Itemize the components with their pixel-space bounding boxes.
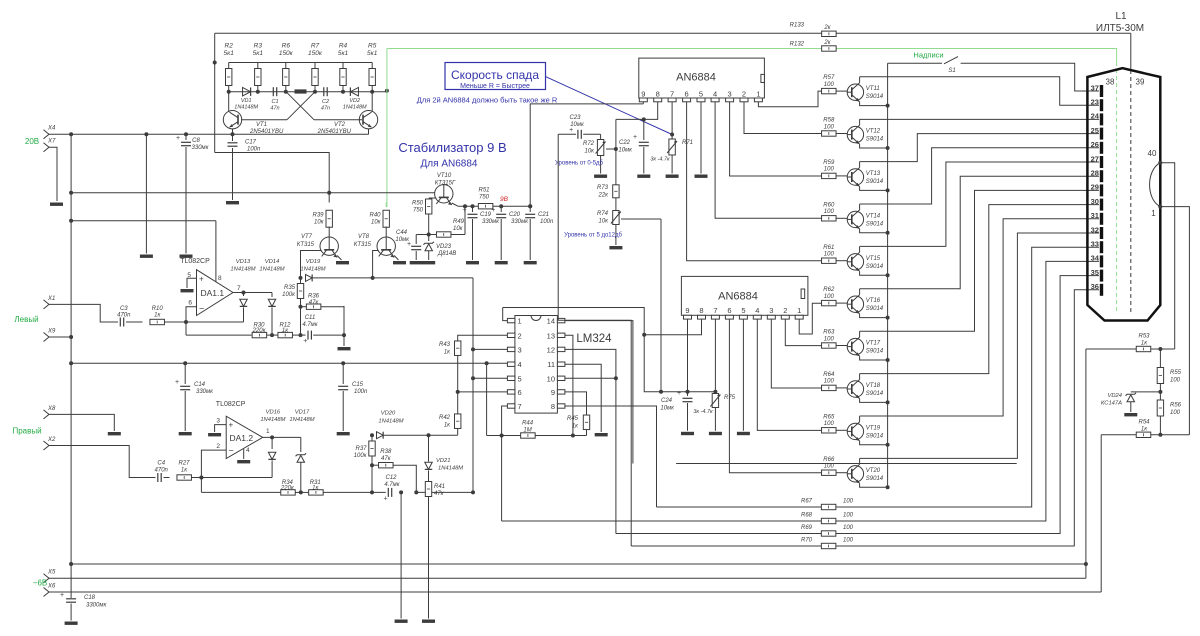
diode VD16 xyxy=(268,452,276,459)
svg-text:330мк: 330мк xyxy=(196,389,214,395)
wire C23 to R72 xyxy=(583,133,600,135)
resistor R55 xyxy=(1157,368,1163,384)
ground C17 xyxy=(226,201,239,204)
display pin 24 mark xyxy=(1100,113,1103,125)
svg-text:X9: X9 xyxy=(47,329,56,335)
wire chip2 pin8 hook xyxy=(644,319,701,335)
svg-text:23: 23 xyxy=(1091,98,1099,107)
transistor VT19 xyxy=(847,422,863,441)
ground AN6884-2 pin5 xyxy=(737,432,750,435)
junction xyxy=(69,335,73,339)
wire R42 bottom xyxy=(457,429,459,436)
svg-text:3к -4.7к: 3к -4.7к xyxy=(693,409,713,415)
wire X6 rail riser xyxy=(1100,435,1102,592)
wire R44 right xyxy=(535,435,586,437)
wire multivibrator top rail xyxy=(229,62,373,64)
wire multivibrator lower rail xyxy=(229,91,387,93)
junction xyxy=(642,333,646,337)
AN6884-1 pin 1 stub xyxy=(754,98,762,102)
svg-text:Уровень от 5 до12дб: Уровень от 5 до12дб xyxy=(564,233,622,239)
svg-text:470n: 470n xyxy=(155,468,169,474)
svg-text:100: 100 xyxy=(824,336,835,342)
svg-text:Меньше R = Быстрее: Меньше R = Быстрее xyxy=(460,83,530,90)
junction xyxy=(144,132,148,136)
wire R69 to pin35 xyxy=(836,276,1099,534)
wire VT14 emitter xyxy=(860,229,888,233)
svg-text:R61: R61 xyxy=(823,245,834,251)
wire multivibrator left drop xyxy=(214,33,216,152)
switch S1 xyxy=(944,57,958,64)
svg-text:R50: R50 xyxy=(412,201,424,207)
svg-text:9: 9 xyxy=(685,306,689,315)
wire R4 top lead xyxy=(342,63,344,69)
trimmer resistor R72 xyxy=(596,140,606,156)
svg-text:L1: L1 xyxy=(1115,11,1127,22)
wire R5 top lead xyxy=(371,63,373,69)
wire VD16 bottom xyxy=(271,461,273,478)
wire R69 riser xyxy=(615,378,617,533)
wire input line to VD13 xyxy=(165,321,244,323)
svg-text:28: 28 xyxy=(1091,169,1099,178)
wire to LM324 pin5 drop xyxy=(416,491,473,493)
svg-text:10к: 10к xyxy=(371,220,382,226)
wire C22 top xyxy=(643,119,645,140)
svg-text:Надписи: Надписи xyxy=(913,51,943,60)
svg-text:C19: C19 xyxy=(480,212,492,218)
ground C15 xyxy=(337,432,350,435)
svg-text:R6: R6 xyxy=(282,43,291,50)
svg-text:VT10: VT10 xyxy=(437,173,452,179)
connector X4 xyxy=(44,130,50,139)
wire R67 to pin33 xyxy=(836,247,1099,507)
wire pin4 to R60 xyxy=(715,102,822,219)
wire feedback to R30 xyxy=(186,334,252,336)
svg-text:4: 4 xyxy=(518,360,522,369)
wire cross couple 2 xyxy=(287,92,315,120)
svg-text:C18: C18 xyxy=(84,595,96,601)
svg-text:3к -4.7к: 3к -4.7к xyxy=(650,157,670,163)
wire VT15 collector to pin27 xyxy=(860,162,1099,246)
svg-text:100n: 100n xyxy=(247,147,261,153)
svg-text:C8: C8 xyxy=(192,138,200,144)
svg-text:1: 1 xyxy=(797,306,801,315)
svg-text:30: 30 xyxy=(1091,197,1099,206)
svg-text:R68: R68 xyxy=(801,513,813,519)
wire R59 to VT13 base xyxy=(836,175,847,177)
ground branch xyxy=(140,255,153,258)
resistor R44 xyxy=(521,433,536,438)
svg-text:100: 100 xyxy=(824,252,835,258)
resistor R56 xyxy=(1157,400,1163,416)
wire chip2 pin4 to R65 xyxy=(757,319,822,430)
junction xyxy=(213,61,217,65)
svg-text:36: 36 xyxy=(1091,282,1099,291)
display pin 28 mark xyxy=(1100,170,1103,182)
capacitor C15 xyxy=(338,386,348,389)
resistor R65 xyxy=(822,428,837,433)
junction xyxy=(886,443,890,447)
diode VD20 xyxy=(377,432,384,439)
svg-text:C12: C12 xyxy=(385,475,397,481)
svg-text:X2: X2 xyxy=(47,437,56,443)
wire R12 to C11 xyxy=(293,334,306,336)
resistor R54 xyxy=(1136,432,1151,437)
ground R74 xyxy=(609,246,622,249)
junction xyxy=(528,204,532,208)
ground C11 node xyxy=(338,347,351,350)
wire R3 top lead xyxy=(257,63,259,69)
transistor VT20 xyxy=(847,464,863,483)
svg-text:R132: R132 xyxy=(790,42,805,48)
wire pin40 down xyxy=(1160,163,1174,349)
ground VD24 xyxy=(1124,413,1137,416)
LM324 pin 1 stub xyxy=(507,318,515,322)
ground VT7 emitter xyxy=(336,261,349,264)
transistor VT16 xyxy=(847,295,863,314)
wire R2 bottom lead xyxy=(228,86,230,92)
wire R55 to R56 xyxy=(1159,384,1161,401)
wire R56 bottom xyxy=(1159,416,1161,435)
wire C17 top xyxy=(232,134,234,141)
display L1 outline xyxy=(1087,68,1160,320)
zener diode VD17 xyxy=(296,453,307,462)
wire C14 bottom xyxy=(184,391,186,431)
svg-text:4: 4 xyxy=(713,89,717,98)
svg-text:Стабилизатор 9 В: Стабилизатор 9 В xyxy=(398,140,506,155)
wire C17 to ground xyxy=(232,148,234,200)
wire VT20 emitter xyxy=(860,483,888,487)
svg-text:+: + xyxy=(633,134,637,141)
junction xyxy=(184,132,188,136)
display pin 27 mark xyxy=(1100,156,1103,168)
LM324 pin 9 stub xyxy=(557,390,565,394)
svg-text:S9014: S9014 xyxy=(866,433,884,439)
svg-text:2: 2 xyxy=(742,89,746,98)
svg-text:+: + xyxy=(491,207,495,214)
svg-text:32: 32 xyxy=(1091,225,1099,234)
svg-text:R73: R73 xyxy=(597,185,609,191)
resistor R63 xyxy=(822,343,837,348)
wire to R38 xyxy=(372,464,379,466)
svg-text:330мк: 330мк xyxy=(482,219,500,225)
AN6884-1 pin 2 stub xyxy=(740,98,748,102)
svg-text:S9014: S9014 xyxy=(866,264,884,270)
wire VT13 emitter xyxy=(860,187,888,191)
svg-text:R70: R70 xyxy=(801,538,813,544)
svg-text:220к: 220к xyxy=(280,485,295,491)
svg-text:R27: R27 xyxy=(178,461,190,467)
svg-text:31: 31 xyxy=(1091,211,1099,220)
svg-text:100: 100 xyxy=(824,167,835,173)
svg-text:R43: R43 xyxy=(439,342,451,348)
junction xyxy=(69,191,73,195)
wire R6 top lead xyxy=(285,63,287,69)
wire pin4 ground xyxy=(243,449,245,459)
svg-text:22к: 22к xyxy=(597,193,609,199)
wire to VT1 base xyxy=(241,119,287,121)
wire VT11 collector xyxy=(859,77,861,83)
svg-text:100к: 100к xyxy=(354,453,368,459)
wire LM324 pin12 xyxy=(565,349,616,378)
common bar marker xyxy=(295,89,307,93)
ground R41 xyxy=(422,620,435,623)
svg-text:VT8: VT8 xyxy=(358,234,370,240)
wire VT17 collector xyxy=(859,331,861,337)
svg-text:R133: R133 xyxy=(790,23,805,29)
svg-text:R41: R41 xyxy=(434,484,445,490)
wire pin1 to chip2 node xyxy=(503,308,716,392)
AN6884-2 pin 9 stub xyxy=(684,315,692,319)
wire reference node xyxy=(416,234,465,236)
svg-text:10к: 10к xyxy=(598,219,609,225)
resistor R27 xyxy=(177,475,192,480)
wire pin14 line right xyxy=(676,463,1017,465)
wire VD14 top xyxy=(271,293,273,298)
svg-text:−: − xyxy=(229,446,234,456)
junction xyxy=(227,90,231,94)
junction xyxy=(499,204,503,208)
wire DA1.1 pin8 supply xyxy=(215,221,217,282)
resistor R69 xyxy=(821,531,836,536)
junction xyxy=(463,204,467,208)
svg-text:6: 6 xyxy=(518,388,522,397)
svg-text:1: 1 xyxy=(266,428,270,435)
junction xyxy=(642,117,646,121)
svg-text:7: 7 xyxy=(237,285,241,292)
wire pin1 down xyxy=(1160,207,1189,435)
junction xyxy=(886,231,890,235)
display pin 33 mark xyxy=(1100,241,1103,253)
resistor R7 xyxy=(312,69,318,86)
junction xyxy=(1158,347,1162,351)
svg-text:1N4148М: 1N4148М xyxy=(300,267,325,273)
wire R75 bottom xyxy=(714,408,716,431)
svg-text:100: 100 xyxy=(843,538,854,544)
wire VT18 emitter xyxy=(860,399,888,403)
wire R57 to VT11 base xyxy=(836,90,847,92)
junction xyxy=(614,376,618,380)
wire R69 left xyxy=(616,533,822,535)
wire bottom rail 1 xyxy=(71,563,1086,565)
wire C11 right xyxy=(313,334,344,336)
wire C12 node to ground xyxy=(400,492,402,618)
wire C22 bottom xyxy=(643,147,645,174)
svg-text:C11: C11 xyxy=(305,315,316,321)
transistor VT7 xyxy=(320,237,338,257)
wire ground branch xyxy=(145,134,147,253)
junction xyxy=(299,333,303,337)
wire C24 bottom xyxy=(687,403,689,431)
svg-text:750: 750 xyxy=(413,208,424,214)
svg-text:X7: X7 xyxy=(47,139,56,145)
capacitor C24 xyxy=(677,390,693,402)
wire VT14 collector xyxy=(859,204,861,210)
ground VT8 emitter xyxy=(393,261,406,264)
wire green horizontal to R132 xyxy=(387,48,822,50)
op-amp chip LM324 body xyxy=(515,316,558,414)
svg-text:R57: R57 xyxy=(823,75,835,81)
wire to VD24 xyxy=(1131,391,1161,393)
svg-text:2N5401YBU: 2N5401YBU xyxy=(249,129,284,135)
wire X5 rail riser xyxy=(1085,349,1087,578)
wire R36 C11 node xyxy=(343,306,345,346)
svg-text:VT14: VT14 xyxy=(866,213,881,219)
svg-text:VD20: VD20 xyxy=(381,411,396,417)
svg-text:R66: R66 xyxy=(823,457,835,463)
svg-text:6: 6 xyxy=(685,89,689,98)
wire 9V rail xyxy=(458,205,530,207)
wire R53 right xyxy=(1151,348,1175,350)
svg-text:X1: X1 xyxy=(47,296,55,302)
resistor R64 xyxy=(822,385,837,390)
wire pin3 pin5 column xyxy=(472,278,474,493)
svg-text:Правый: Правый xyxy=(12,427,41,436)
wire R64 to VT18 base xyxy=(836,387,847,389)
AN6884-2 pin 7 stub xyxy=(711,315,719,319)
svg-text:7: 7 xyxy=(518,402,522,411)
wire LM324 pin10 xyxy=(565,377,616,379)
svg-text:5: 5 xyxy=(518,374,522,383)
svg-text:1N4148М: 1N4148М xyxy=(289,417,314,423)
wire VT20 collector to pin32 xyxy=(860,233,1099,458)
svg-text:+: + xyxy=(463,207,467,214)
junction xyxy=(299,490,303,494)
wire VD19 anode xyxy=(301,277,303,279)
ground VD23 xyxy=(422,261,435,264)
svg-text:27: 27 xyxy=(1091,154,1099,163)
svg-text:S9014: S9014 xyxy=(866,179,884,185)
resistor R37 xyxy=(369,441,375,456)
op-amp DA1.2 xyxy=(226,416,263,458)
svg-text:+: + xyxy=(199,275,204,284)
wire to R55 xyxy=(1159,349,1161,367)
wire R54 right xyxy=(1151,434,1190,436)
wire VD21 top xyxy=(428,435,430,461)
wire X8 to ground xyxy=(49,414,114,431)
junction xyxy=(69,219,73,223)
wire R3 bottom lead xyxy=(257,86,259,92)
svg-text:C20: C20 xyxy=(509,212,521,218)
junction xyxy=(69,361,73,365)
wire input to VD16 xyxy=(192,477,273,479)
wire VT11 collector to pin23 xyxy=(860,77,1099,105)
capacitor C2 xyxy=(324,87,327,96)
svg-text:100: 100 xyxy=(824,82,835,88)
wire chip2 pin2 to R63 xyxy=(785,319,822,346)
svg-text:5к1: 5к1 xyxy=(224,50,235,57)
ground C44 xyxy=(410,261,423,264)
wire C19 top xyxy=(472,206,474,212)
resistor R45 xyxy=(583,415,589,430)
LM324 pin 8 stub xyxy=(557,404,565,408)
wire LM324 pin2 to R43 xyxy=(458,335,508,341)
junction xyxy=(242,291,246,295)
resistor R42 xyxy=(455,414,461,429)
svg-text:150к: 150к xyxy=(308,50,323,57)
resistor R34 xyxy=(281,490,296,495)
wire VT1 emitter xyxy=(232,129,234,134)
wire pin2 riser xyxy=(201,450,226,492)
svg-text:C14: C14 xyxy=(194,382,206,388)
wire green dashed pin38 column xyxy=(1116,62,1118,313)
junction xyxy=(614,147,618,151)
wire chip2 pin9 column xyxy=(687,319,689,392)
wire pin5 to ground xyxy=(187,278,197,288)
resistor R50 xyxy=(426,199,432,214)
svg-text:100: 100 xyxy=(1170,378,1181,384)
resistor R3 xyxy=(255,69,261,86)
capacitor C20 xyxy=(491,207,506,218)
svg-text:47к: 47к xyxy=(381,456,392,462)
LM324 pin 14 stub xyxy=(557,318,565,322)
svg-text:14: 14 xyxy=(547,317,555,326)
svg-text:КТ315Г: КТ315Г xyxy=(435,181,456,187)
svg-text:5к1: 5к1 xyxy=(253,50,264,57)
capacitor C23 xyxy=(578,130,581,139)
wire LM324 pin7 xyxy=(502,406,508,436)
svg-text:+: + xyxy=(60,592,64,599)
svg-text:2: 2 xyxy=(518,331,522,340)
wire pin7 to R75 xyxy=(714,319,716,393)
transistor VT10 xyxy=(435,185,453,205)
wire R4 bottom lead xyxy=(342,86,344,92)
svg-text:C4: C4 xyxy=(157,461,165,467)
svg-text:5к1: 5к1 xyxy=(338,50,349,57)
wire VD13 bottom xyxy=(243,308,245,323)
resistor R132 xyxy=(822,46,837,51)
svg-text:100: 100 xyxy=(824,294,835,300)
svg-text:R67: R67 xyxy=(801,499,813,505)
diode VD13 xyxy=(240,299,248,306)
svg-text:X8: X8 xyxy=(47,406,56,412)
wire pin3 to R59 xyxy=(730,102,822,177)
wire R66 to VT20 base xyxy=(836,472,847,474)
wire VT11 emitter xyxy=(860,102,888,106)
svg-text:+: + xyxy=(569,127,573,134)
svg-text:VD16: VD16 xyxy=(266,410,281,416)
svg-text:1: 1 xyxy=(756,89,760,98)
wire R73 to R74 xyxy=(615,198,617,210)
svg-text:470n: 470n xyxy=(117,313,131,319)
resistor R36 xyxy=(306,304,321,309)
junction xyxy=(427,233,431,237)
junction xyxy=(1158,390,1162,394)
wire VT17 collector to pin29 xyxy=(860,190,1099,331)
junction xyxy=(385,89,389,93)
wire C15 top xyxy=(342,363,344,384)
wire R74 wiper line2 xyxy=(621,218,661,220)
wire to VT2 base xyxy=(314,119,362,121)
wire VT19 emitter xyxy=(860,441,888,445)
svg-text:8: 8 xyxy=(218,275,222,282)
trimmer resistor R75 xyxy=(710,394,720,408)
wire R34 to R31 xyxy=(296,491,309,493)
wire R60 to VT14 base xyxy=(836,217,847,219)
svg-text:4: 4 xyxy=(246,447,250,454)
chip AN6884 no.1 body xyxy=(639,58,765,98)
wire X9 to bus xyxy=(49,336,71,338)
svg-text:10мк: 10мк xyxy=(618,148,633,154)
svg-text:1: 1 xyxy=(518,317,522,326)
junction xyxy=(313,90,317,94)
wire R35 bottom xyxy=(300,299,302,336)
svg-text:VT17: VT17 xyxy=(866,341,881,347)
AN6884-2 pin 2 stub xyxy=(781,315,789,319)
transistor VT13 xyxy=(847,168,863,187)
svg-text:8: 8 xyxy=(656,89,660,98)
wire VT10 base to R50 xyxy=(429,197,437,199)
wire C8 top xyxy=(185,134,187,140)
